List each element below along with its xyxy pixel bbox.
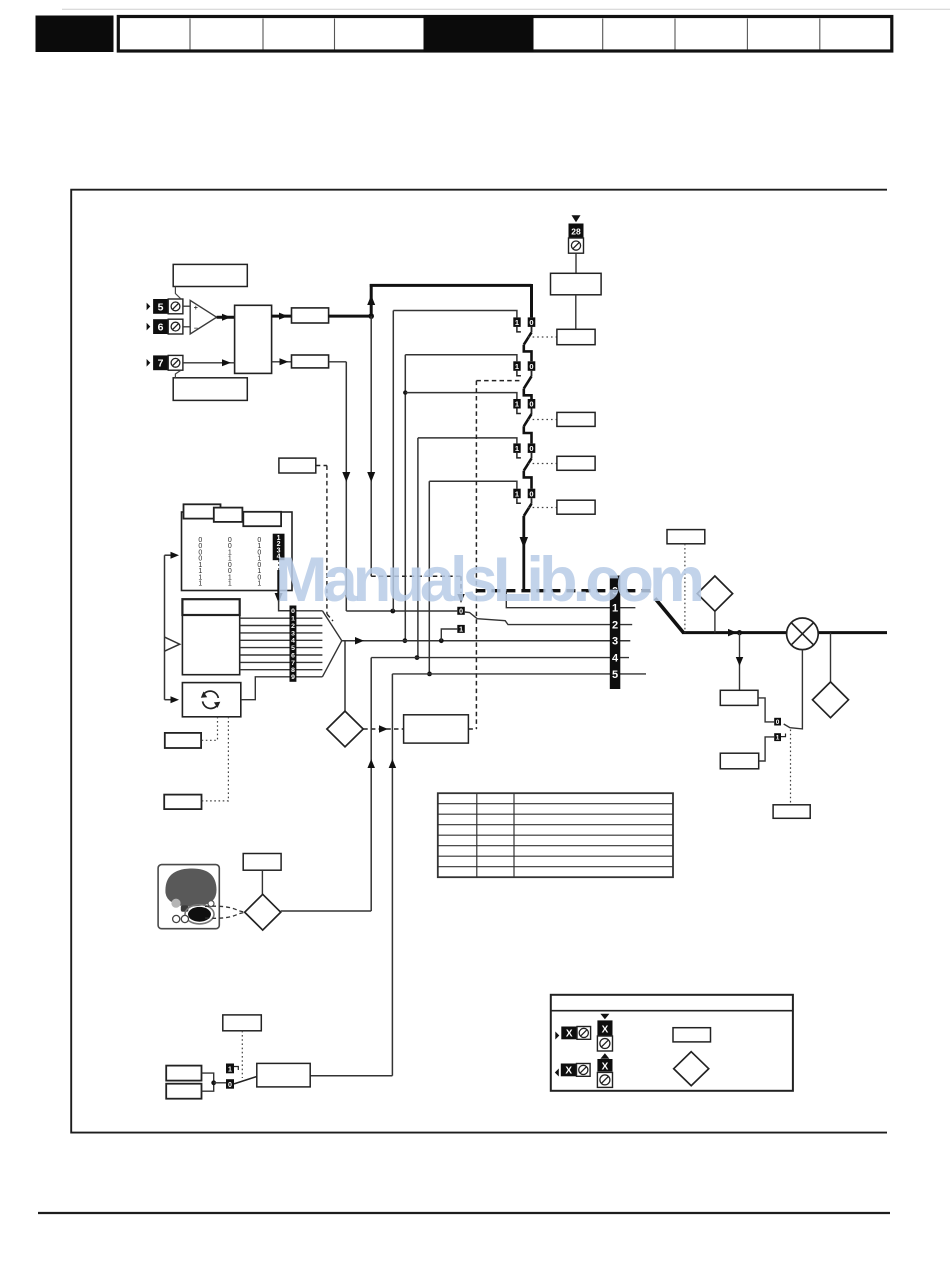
selector 1 tap wire — [441, 629, 457, 641]
relay box right — [720, 690, 758, 705]
thick bus riser with up arrow — [370, 284, 373, 316]
terminal 28 — [569, 224, 584, 239]
svg-text:1: 1 — [515, 489, 519, 498]
thick dashed row0 wire — [476, 589, 655, 592]
right switch contact 0 — [774, 718, 781, 726]
motor diamond D4 — [245, 894, 281, 930]
wire terminal 28 to box — [575, 253, 577, 273]
dotted drop from label box to wire — [684, 544, 686, 633]
arrow + junction on output wire — [728, 629, 737, 637]
bottom left box 2 — [166, 1084, 201, 1099]
wire junction to contact 0 — [214, 1082, 226, 1084]
svg-text:7: 7 — [158, 358, 164, 370]
svg-text:4: 4 — [291, 638, 295, 645]
legend sample diamond — [674, 1052, 709, 1086]
switch S1 in chain (1/0 contacts + blade) — [513, 317, 520, 327]
svg-text:6: 6 — [291, 652, 295, 659]
svg-text:5: 5 — [291, 645, 295, 652]
wire terminal7 to block (arrow) — [183, 362, 235, 364]
label box at switch3 — [557, 412, 595, 426]
wire terminal5 to op-amp + input — [183, 305, 190, 307]
svg-text:1: 1 — [228, 581, 232, 588]
mux output wire with arrow (row3 bus) — [342, 640, 631, 642]
switch4 feed wire — [418, 438, 517, 444]
diamond component D2 — [813, 682, 849, 718]
horizontal wire bottom box to riser — [310, 1075, 392, 1077]
svg-text:2: 2 — [291, 623, 295, 630]
decoder header band — [182, 599, 239, 615]
row1 wire (elbow from row0) — [506, 591, 635, 608]
svg-text:5: 5 — [612, 669, 618, 681]
funnel converge diagonals right of strip — [322, 611, 341, 641]
svg-text:7: 7 — [291, 660, 295, 667]
small rect callout (dash source) — [279, 458, 316, 473]
svg-text:ManualsLib.com: ManualsLib.com — [275, 545, 705, 615]
junction node on selector feed — [390, 609, 395, 614]
legend header line — [551, 1010, 793, 1012]
binary digit columns — [198, 537, 261, 588]
callout box above terminal 5 — [173, 264, 247, 286]
dashed control wire drop with arrow at selector 0 — [460, 576, 462, 593]
svg-text:0: 0 — [776, 719, 780, 726]
terminal 7 — [147, 359, 151, 367]
wire terminal6 to op-amp - input — [183, 326, 190, 328]
header active cell (black) — [424, 15, 534, 52]
svg-text:1: 1 — [515, 318, 519, 327]
dashed capsule motor to diamond — [205, 906, 245, 918]
title tab 2 on binary table — [214, 508, 243, 522]
bottom left box 1 — [166, 1066, 201, 1081]
junction node row3/selector-1 tap — [439, 638, 444, 643]
wire block to resistor box R1 (thick, arrow) — [272, 315, 292, 318]
svg-text:X: X — [565, 1066, 572, 1077]
row9 wire from pump output — [241, 677, 323, 700]
row5 wire to bottom drop — [392, 673, 646, 675]
svg-text:1: 1 — [291, 616, 295, 623]
data table — [438, 793, 673, 877]
function block U2 — [235, 305, 272, 373]
binary code table box — [182, 512, 293, 591]
pump block — [182, 683, 240, 717]
dotted link switch3 to label box — [528, 419, 557, 421]
switch5 feed vertical drop — [428, 481, 430, 674]
svg-text:8: 8 — [291, 667, 295, 674]
dashed wire box to control vertical — [468, 728, 476, 730]
dashed wire diamond D3 to box (arrow) — [363, 728, 403, 730]
header navigation table — [118, 17, 892, 52]
wire mux bus down to diamond — [344, 641, 346, 711]
label box left 2 — [164, 795, 201, 810]
main thick output wire to right edge — [682, 631, 887, 634]
feeder arrow into pump — [165, 699, 173, 701]
svg-text:1: 1 — [228, 1066, 232, 1073]
row0 wire from strip elbow — [290, 610, 322, 612]
selector contact 1 — [457, 625, 465, 633]
svg-text:9: 9 — [291, 674, 295, 681]
op-amp comparator U1 — [190, 300, 216, 334]
elbow strip to row0 wire — [279, 600, 290, 611]
switch1 feed vertical drop — [392, 311, 394, 612]
legend vertical terminal with up arrow (row2) — [600, 1053, 609, 1059]
selector contact 0 — [457, 607, 465, 615]
box under terminal 28 — [551, 273, 602, 295]
legend arrow-out terminal (row2) — [555, 1069, 559, 1077]
legend vertical terminal with down arrow (row1) — [600, 1014, 609, 1020]
svg-text:−: − — [194, 325, 198, 332]
label box left 1 — [165, 733, 201, 748]
title tab 3 on binary table — [243, 512, 281, 526]
label box above bottom switch — [223, 1015, 261, 1031]
wire lamp right branch down to diamond D2 — [830, 633, 832, 682]
svg-text:0: 0 — [228, 1082, 232, 1089]
thick wire R1 output to bus junction — [329, 315, 372, 318]
svg-text:3: 3 — [612, 636, 618, 648]
switch2 feed vertical drop — [404, 355, 406, 641]
box right of diamond D3 — [404, 715, 469, 743]
switch3 feed wire — [405, 393, 517, 399]
left black strip digits 0-9 — [290, 606, 297, 682]
footer rule — [38, 1212, 890, 1214]
wire jog between switch S4 and S5 — [524, 471, 532, 489]
svg-text:X: X — [566, 1029, 573, 1040]
resistor box R2 — [292, 355, 329, 368]
switch S5 in chain (1/0 contacts + blade) — [513, 489, 520, 499]
wire box to label box — [575, 295, 577, 330]
junction node on thick bus — [368, 313, 374, 319]
bottom center box — [257, 1063, 310, 1087]
thick bus top horizontal — [370, 284, 532, 287]
svg-text:4: 4 — [612, 653, 619, 665]
wire diamond D1 to output wire — [714, 611, 716, 632]
svg-text:X: X — [602, 1025, 609, 1036]
dashed wire from rect down along x=327 — [316, 465, 327, 467]
svg-text:3: 3 — [291, 630, 295, 637]
right black strip digits 0-5 — [610, 576, 621, 690]
motor device icon — [158, 865, 219, 929]
wire R2 output to vertical drop — [329, 361, 347, 363]
circular arrows icon in pump block — [203, 691, 219, 708]
label box above motor diamond — [243, 854, 281, 871]
dotted lead under strip — [278, 560, 280, 571]
dotted link switch1 to label box — [528, 336, 557, 338]
wire jog between switch S1 and S2 — [524, 345, 532, 362]
lamp symbol (circle with X) — [787, 618, 819, 650]
branch wire down to relay box (arrow) — [739, 633, 741, 691]
thick diagonal row0 to main output wire — [655, 598, 683, 632]
thick down arrow from strip to row0 — [277, 570, 280, 594]
long dashed vertical control wire — [475, 381, 477, 729]
dotted drop from label box to bottom switch — [241, 1031, 243, 1078]
dotted drop from right switch to label box — [790, 730, 792, 805]
header black tab — [36, 16, 114, 53]
leader line from callout to terminal 7 — [175, 371, 180, 378]
label box top right — [667, 530, 705, 544]
selector 0-feed horizontal wire — [346, 610, 457, 612]
wire row4 down to motor diamond (up arrow) — [370, 658, 372, 911]
thick bus drop to switch chain — [530, 284, 533, 317]
label box at switch1 — [557, 329, 595, 344]
resistor box R1 — [292, 308, 329, 323]
thick wire from switch chain bottom (down arrow) — [522, 516, 525, 591]
decoder block — [182, 599, 239, 675]
horizontal wire to motor diamond — [281, 910, 372, 912]
wire lamp bottom down to switch blade — [784, 650, 803, 729]
terminal 5 — [147, 303, 151, 311]
svg-text:1: 1 — [198, 581, 202, 588]
svg-text:+: + — [194, 305, 198, 312]
wire jog between switch S3 and S4 — [524, 426, 532, 443]
vertical wire from bus junction down to dashed control (down arrow) — [370, 316, 372, 576]
svg-text:0: 0 — [529, 318, 533, 327]
left feeder wire with arrows (into binary table / decoder / pump) — [164, 555, 166, 700]
wire block to resistor box R2 (arrow) — [272, 361, 292, 363]
svg-text:0: 0 — [529, 400, 533, 409]
wire lower relay box to contact 1 — [759, 737, 775, 761]
svg-text:1: 1 — [257, 581, 261, 588]
legend box — [551, 995, 793, 1091]
svg-text:28: 28 — [571, 226, 581, 236]
row4 wire to motor drop — [371, 657, 629, 659]
terminal 6 — [147, 323, 151, 331]
switch1 feed wire — [393, 311, 517, 318]
label box at switch5 — [557, 500, 595, 514]
label box bottom right — [773, 805, 810, 819]
svg-text:0: 0 — [529, 444, 533, 453]
switch5 feed wire — [429, 481, 517, 488]
svg-text:1: 1 — [515, 444, 519, 453]
svg-text:2: 2 — [612, 620, 618, 632]
dashed control wire to switch2 blade — [476, 380, 522, 382]
diamond component D1 — [697, 576, 732, 611]
faint scan line top — [62, 8, 950, 10]
wire relay box to contact 0 — [758, 698, 774, 722]
svg-text:5: 5 — [158, 301, 164, 313]
feeder fork arrow into decoder — [165, 637, 180, 651]
bracket wires to junction — [202, 1073, 214, 1091]
selector blade wire to row2 — [465, 612, 632, 625]
wire label box to motor diamond — [261, 870, 263, 894]
dotted link pump to label box 2 — [202, 717, 229, 801]
dotted link switch5 to label box — [528, 507, 557, 509]
legend arrow-in terminal (row1) — [555, 1032, 559, 1040]
switch S4 in chain (1/0 contacts + blade) — [513, 443, 520, 453]
diagram frame (open right side) — [71, 190, 887, 1133]
black strip 1-4 in binary table — [273, 534, 285, 561]
switch4 feed vertical drop — [417, 438, 419, 658]
bottom switch contact 1 — [226, 1064, 234, 1074]
switch S2 in chain (1/0 contacts + blade) — [513, 361, 520, 371]
bottom switch contact 0 — [226, 1079, 234, 1089]
svg-text:1: 1 — [459, 626, 463, 633]
callout box below terminal 7 — [173, 378, 247, 401]
down arrow above terminal 28 — [572, 215, 581, 222]
dotted link switch4 to label box — [528, 463, 557, 465]
diamond component D3 (center) — [327, 711, 363, 747]
decoder output wires rows 1-8 — [240, 618, 323, 670]
svg-text:0: 0 — [529, 362, 533, 371]
lower relay box right — [720, 753, 758, 769]
svg-text:1: 1 — [515, 400, 519, 409]
bottom switch blade to box — [234, 1077, 257, 1084]
vertical wire from R2 drop down to selector feed (down arrow) — [345, 362, 347, 611]
dashed control wire to selector (horizontal) — [371, 575, 461, 577]
label box at switch4 — [557, 456, 595, 470]
svg-text:6: 6 — [158, 322, 164, 334]
title tab 1 on binary table — [184, 504, 221, 518]
leader line from callout to terminal 5 — [175, 287, 180, 299]
svg-text:0: 0 — [529, 489, 533, 498]
wire jog between switch S2 and S3 — [524, 389, 532, 399]
svg-text:1: 1 — [776, 735, 780, 742]
wire row5 down to bottom box (up arrow) — [391, 674, 393, 1076]
right switch contact 1 — [774, 733, 781, 741]
legend sample rect — [673, 1028, 711, 1042]
switch S3 in chain (1/0 contacts + blade) — [513, 399, 520, 409]
svg-text:1: 1 — [515, 362, 519, 371]
switch2 feed wire — [405, 355, 517, 362]
dotted link pump to label box 1 — [201, 717, 217, 741]
wire op-amp output to block (thick, arrow) — [217, 316, 235, 319]
svg-text:X: X — [602, 1062, 609, 1073]
